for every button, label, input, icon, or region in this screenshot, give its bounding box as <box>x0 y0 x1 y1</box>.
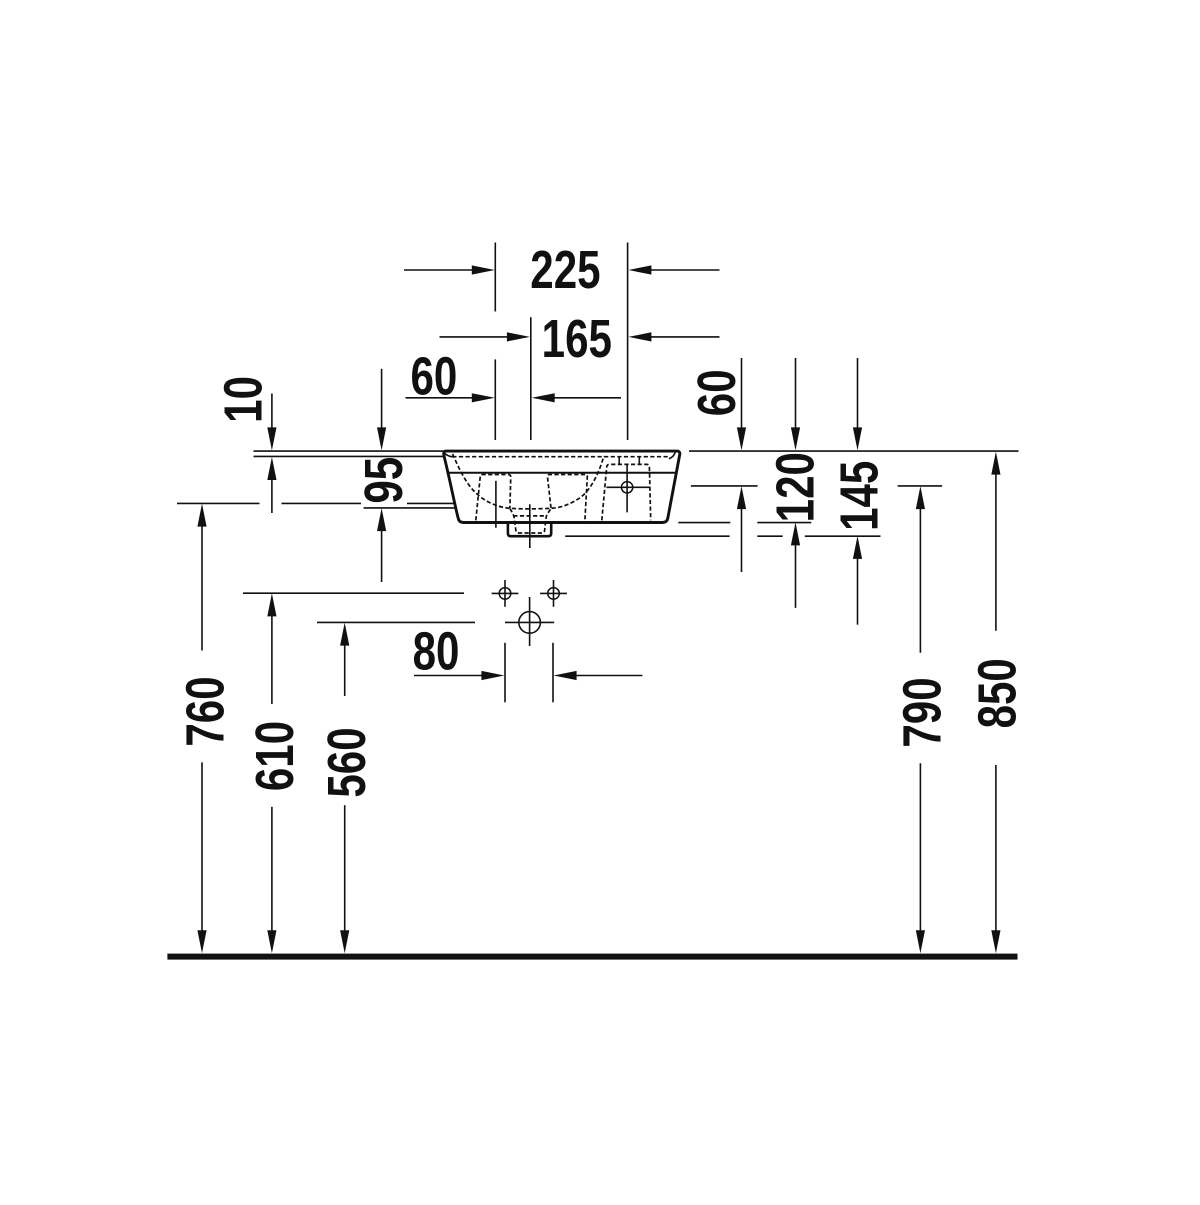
left rib (hidden) <box>476 475 511 521</box>
dimension 95 label <box>354 457 414 504</box>
dimension 165 label <box>542 309 612 369</box>
basin bottom reference line right (120) <box>678 522 811 524</box>
dimension 120 arrows <box>791 358 800 608</box>
rim back edge (hidden) <box>452 456 669 458</box>
floor line <box>167 954 1017 960</box>
centre rib (hidden) <box>547 475 587 522</box>
tap platform (hidden) <box>602 457 651 520</box>
extension line x=495 (225/60) <box>494 243 496 441</box>
extension line x=628 (225/165) <box>627 243 629 441</box>
tap hole reference line right (790/60) <box>691 485 942 487</box>
dimension 560 arrows <box>340 623 349 954</box>
dimension 225 arrows <box>404 265 720 274</box>
drain recess (hidden) <box>510 508 551 533</box>
svg-text:120: 120 <box>765 452 825 522</box>
basin ledge line <box>447 472 676 474</box>
dimension 850 label <box>968 658 1028 728</box>
siphon cover reference line (145) <box>565 535 880 537</box>
tap hole <box>607 464 651 513</box>
dimension 80 arrows <box>414 671 642 680</box>
bowl bottom reference line <box>364 507 488 509</box>
svg-text:60: 60 <box>687 369 747 416</box>
svg-text:790: 790 <box>892 677 952 747</box>
left fixing hole centre mark <box>495 481 497 528</box>
dimension 10 arrows <box>267 394 276 514</box>
wall top reference line <box>254 450 1019 452</box>
extension line x=531 (165/60) <box>530 317 532 440</box>
upper offset reference line (10 below wall line) <box>254 455 444 457</box>
dimension 560 label <box>317 727 377 797</box>
dimension 610 arrows <box>267 593 276 953</box>
dimension 60 right arrows <box>737 358 746 572</box>
dimension 225 label <box>530 240 600 300</box>
dimension 80 label <box>413 622 460 682</box>
dimension 850 arrows <box>991 452 1000 954</box>
dimension 60 right label <box>687 369 747 416</box>
bowl profile (hidden) <box>453 454 604 509</box>
dimension 610 label <box>245 721 305 791</box>
dimension 165 arrows <box>440 332 720 341</box>
dimension 145 arrows <box>853 358 862 625</box>
svg-text:760: 760 <box>176 676 236 746</box>
dimension 10 label <box>213 376 273 423</box>
dimension 120 label <box>765 452 825 522</box>
dimension 60 left arrows <box>406 393 622 402</box>
dimension 95 arrows <box>377 369 386 582</box>
svg-text:560: 560 <box>317 727 377 797</box>
siphon cover <box>508 523 551 537</box>
extension line x=553 (80) <box>552 643 554 703</box>
svg-text:225: 225 <box>530 240 600 300</box>
dimension 760 arrows <box>197 504 206 954</box>
svg-text:10: 10 <box>213 376 273 423</box>
drain centre line <box>529 504 531 548</box>
dimension 790 label <box>892 677 952 747</box>
fixing holes reference line (610) <box>243 592 464 594</box>
svg-text:165: 165 <box>542 309 612 369</box>
basin lower reference line (95) <box>177 502 519 504</box>
svg-text:95: 95 <box>354 457 414 504</box>
svg-text:850: 850 <box>968 658 1028 728</box>
svg-text:610: 610 <box>245 721 305 791</box>
rim corner right <box>669 452 675 459</box>
svg-text:145: 145 <box>829 461 889 531</box>
svg-text:80: 80 <box>413 622 460 682</box>
dimension 760 label <box>176 676 236 746</box>
left fixing hole <box>492 580 519 607</box>
drain outlet hole <box>505 597 554 646</box>
dimension 790 arrows <box>916 486 925 953</box>
rim corner left <box>444 453 452 457</box>
svg-text:60: 60 <box>410 347 457 407</box>
drain hole reference line (560) <box>317 621 475 623</box>
dimension 145 label <box>829 461 889 531</box>
basin outer outline <box>444 451 680 522</box>
extension line x=505 (80) <box>504 643 506 703</box>
right fixing hole <box>540 580 567 607</box>
dimension 60 left label <box>410 347 457 407</box>
